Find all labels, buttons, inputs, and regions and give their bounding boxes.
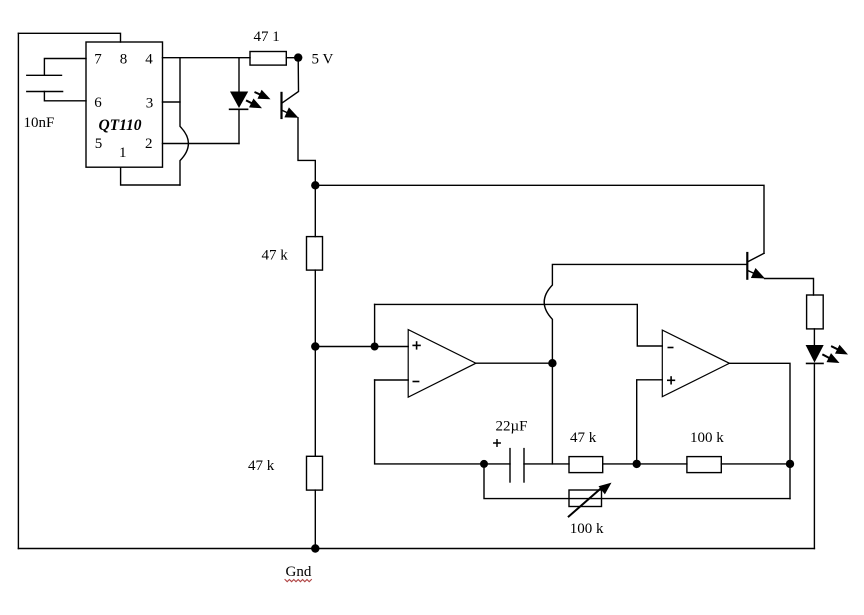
- wire left border vertical: [17, 33, 19, 548]
- node C junction dot: [786, 460, 794, 468]
- wire node C down to pot wire: [789, 464, 791, 499]
- svg-text:4: 4: [145, 52, 153, 68]
- node cap junction dot: [480, 460, 488, 468]
- wire bus to R2: [314, 185, 316, 236]
- resistor R6 body: [687, 457, 721, 473]
- phototransistor Q1 bar: [280, 93, 282, 118]
- phototransistor Q1 emitter arrowhead: [284, 107, 298, 117]
- node feedback junction dot: [371, 343, 379, 351]
- spellcheck squiggle under Gnd: [285, 580, 311, 582]
- wire U2 minus input: [375, 379, 409, 381]
- resistor R3 body: [307, 456, 323, 490]
- wire Q2 emitter to R4: [765, 279, 814, 296]
- node bus top junction dot: [311, 181, 319, 189]
- LED D2 cathode lead to ground: [813, 363, 815, 548]
- light arrow 2: [247, 99, 262, 109]
- wire node B to R6: [637, 463, 687, 465]
- svg-text:2: 2: [145, 136, 153, 152]
- wire cap dot to C2 left plate: [484, 463, 510, 465]
- svg-text:100 k: 100 k: [690, 430, 724, 446]
- light arrow 3: [832, 345, 848, 355]
- wire U2 output down to cap row: [551, 363, 553, 464]
- LED D1 triangle: [230, 92, 248, 109]
- wire Q1 emitter down to bus: [298, 118, 315, 186]
- phototransistor Q1 emitter: [282, 110, 293, 115]
- node A junction dot: [311, 342, 319, 350]
- wire R4 to LED D2: [813, 329, 815, 345]
- wire pot bottom row: [484, 464, 790, 499]
- node B junction dot: [633, 460, 641, 468]
- transistor Q2 collector: [748, 253, 765, 262]
- transistor Q2 emitter arrowhead: [751, 268, 765, 279]
- resistor R1 body: [250, 52, 286, 66]
- capacitor C2 right plate: [523, 449, 525, 482]
- wire R5 to node B: [603, 463, 637, 465]
- transistor Q2 bar: [746, 253, 748, 279]
- wire U2 minus down to cap row: [375, 380, 484, 464]
- node ground junction dot: [311, 544, 319, 552]
- capacitor C1 top plate: [27, 74, 62, 76]
- op-amp U3 plus sign: [668, 377, 675, 384]
- wire R6 to node C: [721, 463, 790, 465]
- op-amp U2 minus sign: [413, 381, 418, 383]
- svg-text:5 V: 5 V: [312, 52, 334, 68]
- wire U2 output: [476, 362, 553, 364]
- op-amp U2 triangle: [408, 330, 476, 398]
- potentiometer R7 arrow: [569, 483, 612, 517]
- wire pin 1 stub to link: [121, 167, 180, 185]
- svg-text:6: 6: [94, 95, 102, 111]
- wire node A to op-amp U2 plus input: [315, 346, 408, 348]
- wire pin3/pin4 link vertical with hop over pin 2 wire: [180, 58, 188, 185]
- svg-text:22µF: 22µF: [496, 419, 528, 435]
- wire R3 to ground: [314, 490, 316, 548]
- svg-text:47 k: 47 k: [570, 430, 597, 446]
- svg-text:100 k: 100 k: [570, 521, 604, 537]
- svg-text:3: 3: [146, 96, 154, 112]
- svg-text:47 k: 47 k: [248, 458, 275, 474]
- svg-text:47 k: 47 k: [262, 248, 289, 264]
- svg-text:7: 7: [94, 52, 102, 68]
- op-amp U3 triangle: [662, 330, 729, 397]
- wire pin 4 to resistor R1: [163, 57, 251, 59]
- svg-text:1: 1: [119, 145, 127, 161]
- wire pin 3 stub: [163, 101, 181, 103]
- op-amp U3 minus sign: [668, 347, 672, 349]
- LED D1 cathode bar: [230, 108, 248, 110]
- wire pin 2 to LED cathode: [163, 143, 240, 145]
- wire U3 output to node C: [729, 363, 790, 464]
- svg-text:10nF: 10nF: [24, 115, 55, 131]
- wire R1 to 5V node: [286, 57, 298, 59]
- wire feedback vertical: [374, 304, 376, 346]
- capacitor C2 left plate: [509, 449, 511, 482]
- resistor R2 body: [307, 237, 323, 271]
- capacitor C1 bottom plate: [27, 91, 63, 93]
- transistor Q2 emitter: [748, 270, 760, 275]
- wire capacitor to pin 6: [44, 92, 86, 101]
- phototransistor Q1 collector lead: [282, 58, 299, 103]
- light arrow 1: [255, 90, 270, 100]
- LED D2 triangle: [806, 345, 824, 363]
- wire C2 right plate to R5: [524, 463, 569, 465]
- svg-text:QT110: QT110: [98, 117, 141, 134]
- resistor R5 body: [569, 457, 603, 473]
- potentiometer R7 body: [569, 490, 602, 507]
- wire U2 output up with hop to Q2 base: [544, 264, 747, 363]
- wire top-left horizontal to chip pin 8: [18, 33, 120, 42]
- svg-text:Gnd: Gnd: [286, 564, 312, 580]
- wire R2 to node A: [314, 270, 316, 346]
- svg-text:8: 8: [120, 52, 128, 68]
- capacitor C2 plus sign: [494, 440, 500, 446]
- light arrow 4: [823, 353, 839, 363]
- node U2 output junction dot: [548, 359, 556, 367]
- wire node B to U3 plus input: [637, 380, 663, 464]
- LED D2 cathode bar: [807, 362, 823, 364]
- wire feedback horizontal to U3 minus: [375, 304, 663, 346]
- op-amp U2 plus sign: [413, 342, 420, 349]
- svg-text:5: 5: [95, 136, 103, 152]
- node 5V junction dot: [294, 53, 302, 61]
- wire ground rail: [18, 548, 814, 550]
- IC U1 QT110 body: [86, 42, 163, 167]
- wire pin 7 to capacitor: [44, 59, 86, 76]
- LED D1 cathode lead: [238, 109, 240, 143]
- wire long horizontal to Q2 collector: [315, 185, 764, 253]
- resistor R4 body: [807, 295, 824, 329]
- svg-text:47 1: 47 1: [254, 29, 280, 45]
- LED D1 anode lead: [238, 58, 240, 92]
- wire node A to R3: [314, 347, 316, 457]
